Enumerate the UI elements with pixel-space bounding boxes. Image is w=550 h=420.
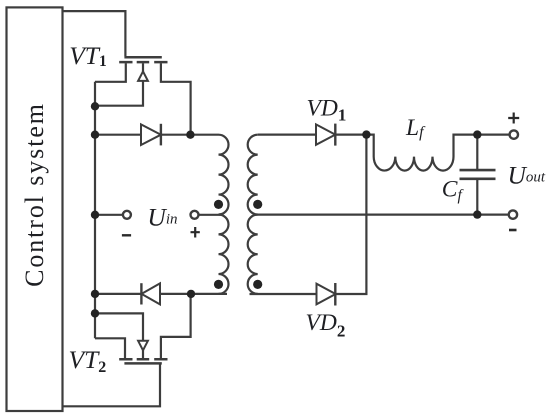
svg-text:Uout: Uout (508, 160, 546, 189)
node D4 cathode junction (91, 290, 99, 298)
svg-text:VD2: VD2 (306, 310, 346, 340)
transformer T1 primary winding (219, 135, 229, 294)
terminal Uin minus (123, 211, 131, 219)
wire VD2 cathode up to VD1 cathode node (335, 135, 366, 294)
node VT1 body junction (91, 102, 99, 110)
node VT2 body junction (91, 309, 99, 317)
transistor Q2 VT2 (95, 294, 191, 364)
transformer T1 secondary winding (248, 135, 258, 294)
svg-text:VD1: VD1 (307, 96, 347, 125)
polarity dot primary upper (214, 200, 223, 209)
wire Uin negative terminal (95, 214, 123, 216)
wire secondary bottom to VD2 (250, 293, 317, 295)
wire secondary center tap to output minus (253, 214, 509, 216)
diode VD2 (317, 283, 336, 306)
polarity dot primary lower (214, 280, 223, 289)
polarity dot secondary upper (253, 200, 262, 209)
polarity dot secondary lower (253, 280, 262, 289)
node VD1 cathode junction (362, 130, 370, 138)
wire gate drive top (63, 11, 126, 56)
svg-text:VT2: VT2 (69, 345, 107, 376)
label plus input (191, 227, 200, 238)
label plus output (508, 113, 519, 124)
node filter bottom junction (473, 210, 481, 218)
terminal Uin plus (191, 211, 199, 219)
inductor L1 Lf (366, 135, 509, 171)
label minus input (122, 234, 131, 236)
svg-text:VT1: VT1 (69, 41, 107, 70)
svg-text:Cf: Cf (442, 177, 465, 204)
node filter top junction (473, 130, 481, 138)
wire secondary top to VD1 (258, 134, 316, 136)
svg-text:Control system: Control system (20, 102, 49, 287)
diode D3 freewheel of VT1 (95, 124, 219, 146)
wire left input rail (94, 82, 96, 339)
capacitor C1 Cf (460, 135, 496, 215)
transistor Q1 VT1 (95, 57, 191, 134)
terminal Uout plus (510, 130, 518, 138)
node VT1 drain junction (186, 131, 194, 139)
diode D4 freewheel of VT2 (95, 283, 227, 304)
diode VD1 (316, 124, 366, 146)
control system box U0 (7, 7, 63, 411)
wire Uin positive terminal to primary center tap (199, 214, 222, 216)
svg-text:Lf: Lf (405, 115, 426, 141)
wire gate drive bottom (63, 364, 161, 406)
node D3 anode junction (91, 131, 99, 139)
svg-text:Uin: Uin (147, 202, 177, 231)
node Uin minus junction (91, 211, 99, 219)
terminal Uout minus (509, 210, 517, 218)
node VT2 drain junction (187, 290, 195, 298)
label minus output (509, 229, 517, 232)
